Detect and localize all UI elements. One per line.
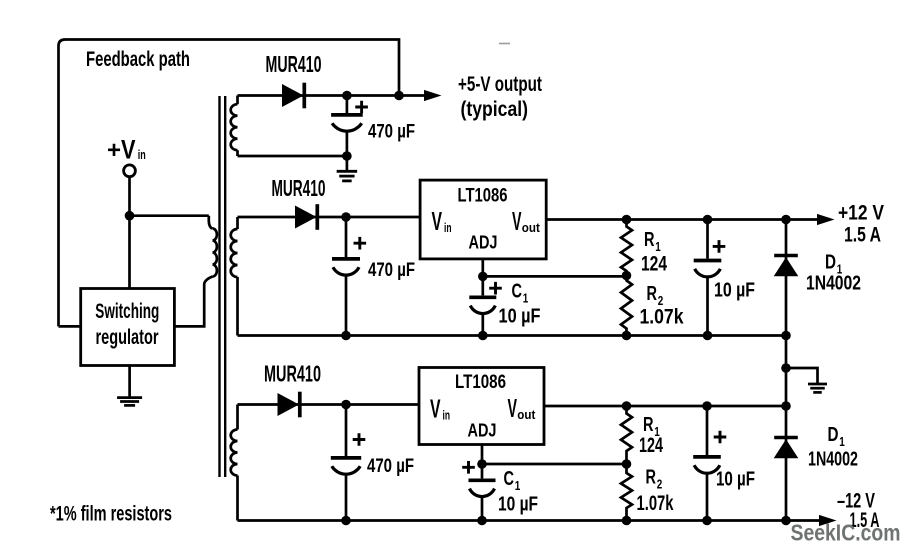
svg-text:470 µF: 470 µF [368, 260, 415, 281]
svg-text:R: R [646, 467, 657, 489]
svg-text:SeekIC.com: SeekIC.com [791, 520, 901, 546]
svg-text:10 µF: 10 µF [499, 306, 541, 328]
svg-text:D: D [828, 424, 839, 446]
svg-text:V: V [430, 394, 441, 424]
svg-text:124: 124 [639, 434, 663, 457]
svg-text:ADJ: ADJ [469, 233, 498, 253]
svg-text:1N4002: 1N4002 [808, 449, 858, 471]
svg-text:1.07k: 1.07k [640, 306, 684, 329]
svg-text:470 µF: 470 µF [368, 122, 415, 143]
svg-text:V: V [512, 206, 522, 236]
svg-text:R: R [647, 283, 658, 305]
svg-text:+: + [107, 137, 121, 164]
svg-text:R: R [643, 414, 654, 436]
svg-text:Switching: Switching [95, 299, 159, 323]
svg-text:D: D [825, 252, 836, 274]
svg-text:MUR410: MUR410 [266, 51, 322, 77]
svg-text:470 µF: 470 µF [367, 456, 414, 477]
svg-text:V: V [508, 393, 518, 423]
svg-text:1.5 A: 1.5 A [844, 224, 881, 247]
svg-text:*1% film resistors: *1% film resistors [50, 502, 172, 525]
svg-text:regulator: regulator [96, 325, 159, 349]
svg-text:1: 1 [515, 478, 521, 493]
svg-text:C: C [512, 281, 523, 303]
svg-text:in: in [443, 408, 451, 422]
svg-text:2: 2 [657, 477, 663, 492]
svg-text:in: in [138, 147, 146, 162]
svg-text:124: 124 [641, 253, 667, 276]
svg-text:1N4002: 1N4002 [806, 273, 861, 295]
svg-text:MUR410: MUR410 [272, 175, 326, 201]
svg-text:+5-V output: +5-V output [458, 72, 542, 96]
svg-text:(typical): (typical) [461, 97, 529, 121]
svg-text:1: 1 [839, 434, 845, 449]
svg-text:MUR410: MUR410 [264, 361, 321, 387]
svg-text:R: R [644, 229, 655, 251]
svg-text:out: out [517, 408, 536, 422]
svg-text:Feedback path: Feedback path [86, 47, 190, 71]
svg-text:10 µF: 10 µF [498, 494, 538, 516]
svg-text:+12 V: +12 V [838, 202, 884, 225]
svg-text:ADJ: ADJ [468, 421, 497, 441]
svg-text:10 µF: 10 µF [714, 280, 755, 302]
svg-text:out: out [522, 221, 541, 235]
svg-text:V: V [121, 135, 136, 165]
svg-text:V: V [432, 206, 443, 236]
svg-text:1.07k: 1.07k [637, 492, 674, 515]
svg-text:10 µF: 10 µF [716, 469, 755, 491]
svg-text:1: 1 [523, 291, 529, 306]
svg-text:in: in [444, 221, 452, 235]
svg-text:LT1086: LT1086 [455, 371, 506, 393]
svg-text:LT1086: LT1086 [458, 185, 508, 207]
svg-text:C: C [504, 468, 515, 490]
